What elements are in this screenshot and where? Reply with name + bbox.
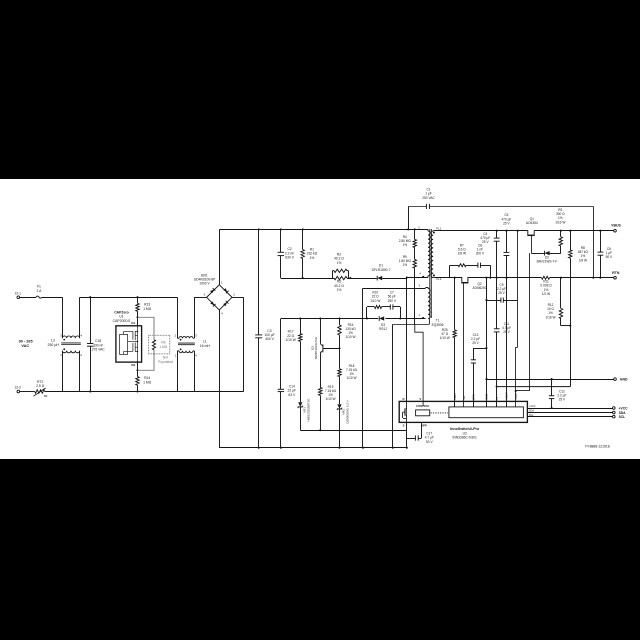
svg-text:HMSZ5258BT3G: HMSZ5258BT3G bbox=[306, 398, 310, 422]
bridge rectifier BR1 bbox=[194, 273, 236, 315]
wire SCL bbox=[527, 415, 625, 419]
svg-text:1%: 1% bbox=[337, 288, 342, 292]
transformer T1 bbox=[407, 226, 444, 327]
svg-text:250 VAC: 250 VAC bbox=[422, 196, 435, 200]
svg-text:200 V: 200 V bbox=[476, 252, 485, 256]
wire bias winding return bbox=[362, 288, 426, 448]
resistor R1 bbox=[301, 228, 318, 278]
terminal GND bbox=[614, 377, 628, 381]
svg-text:SDA: SDA bbox=[529, 410, 534, 413]
svg-text:1/16 W: 1/16 W bbox=[545, 315, 555, 319]
svg-text:250 V: 250 V bbox=[388, 299, 397, 303]
resistor R13 bbox=[136, 296, 152, 317]
svg-text:R14: R14 bbox=[144, 376, 150, 380]
resistor R10 snubber bbox=[367, 291, 391, 319]
resistor R14 bbox=[136, 370, 152, 392]
wire R8 bypass loop bbox=[138, 317, 155, 370]
svg-text:D: D bbox=[402, 397, 404, 401]
svg-text:1%: 1% bbox=[310, 256, 315, 260]
wire FL1 rail bbox=[435, 230, 615, 232]
capacitor C8 bbox=[476, 243, 492, 278]
svg-text:SCL: SCL bbox=[619, 415, 626, 419]
wire L from fuse to L2 bbox=[42, 297, 63, 299]
wire L2 pin3 drop bbox=[62, 297, 64, 338]
svg-text:R13: R13 bbox=[144, 302, 150, 306]
wire FB drop bbox=[497, 326, 571, 387]
svg-text:PI-8888-121918: PI-8888-121918 bbox=[585, 444, 609, 448]
svg-text:1 MΩ: 1 MΩ bbox=[143, 307, 152, 311]
capacitor C14 bbox=[278, 319, 296, 449]
svg-text:1000 V: 1000 V bbox=[199, 282, 210, 286]
svg-text:Populated: Populated bbox=[158, 360, 173, 364]
wire VOUT pin bbox=[506, 278, 508, 407]
wire L rail segment bbox=[80, 297, 178, 299]
wire bridge plus bbox=[219, 229, 221, 284]
svg-text:AON6250: AON6250 bbox=[473, 286, 487, 290]
label PI-8888-121918 bbox=[585, 444, 609, 448]
fuse F1 bbox=[36, 284, 42, 298]
wire to bridge ac1 bbox=[194, 297, 207, 299]
resistor R25 bbox=[440, 277, 457, 407]
capacitor C13 bbox=[471, 333, 487, 407]
svg-text:1%: 1% bbox=[402, 243, 407, 247]
resistor R4 bbox=[399, 228, 417, 247]
wire L2 pin4 rise bbox=[79, 297, 81, 338]
inductor L2 bbox=[48, 333, 83, 357]
svg-text:V: V bbox=[419, 397, 421, 401]
label U2 InnoSwitch3-Pro bbox=[450, 427, 480, 440]
labels U2 secondary pins bbox=[453, 392, 518, 400]
wire primary return bus bbox=[219, 447, 406, 449]
resistor R12 bbox=[545, 277, 570, 326]
wire clamp node bbox=[281, 277, 334, 279]
IC U2 internals bbox=[402, 397, 523, 428]
svg-text:+VCC: +VCC bbox=[619, 406, 629, 410]
svg-text:275 VAC: 275 VAC bbox=[92, 348, 106, 352]
zener VR1 bbox=[298, 398, 311, 430]
wire bridge minus bbox=[219, 310, 221, 448]
svg-text:1%: 1% bbox=[402, 263, 407, 267]
svg-text:250 µH: 250 µH bbox=[48, 343, 60, 347]
svg-text:1/10 W: 1/10 W bbox=[285, 338, 296, 342]
svg-text:S: S bbox=[403, 424, 405, 428]
svg-text:630 V: 630 V bbox=[285, 256, 294, 260]
svg-text:400 V: 400 V bbox=[265, 337, 274, 341]
wire GND rail bbox=[487, 379, 614, 381]
capacitor C17 bbox=[407, 422, 434, 443]
svg-text:L1: L1 bbox=[203, 340, 207, 344]
svg-text:InnoSwitch3-Pro: InnoSwitch3-Pro bbox=[450, 427, 480, 431]
connector J2-1 bbox=[15, 291, 22, 298]
svg-text:J2-2: J2-2 bbox=[15, 386, 22, 390]
resistor R16 bbox=[338, 319, 356, 350]
svg-text:D2: D2 bbox=[131, 363, 135, 367]
capacitor C7 bbox=[388, 291, 401, 319]
svg-text:VBUS: VBUS bbox=[611, 224, 621, 228]
terminal RTN bbox=[612, 271, 620, 279]
svg-text:1/10 W: 1/10 W bbox=[325, 397, 335, 401]
wire L2 pin2 drop bbox=[79, 351, 81, 392]
wire DC+ rail bbox=[219, 229, 428, 231]
wire aux to source bbox=[392, 324, 394, 449]
resistor R8b bbox=[569, 230, 589, 327]
capacitor C3 bbox=[255, 228, 274, 448]
svg-text:1/16 W: 1/16 W bbox=[555, 220, 565, 224]
wire L from J2-1 to fuse bbox=[20, 297, 37, 299]
transistor Q1 bbox=[526, 217, 538, 253]
capacitor C6 bbox=[598, 230, 614, 279]
svg-text:25 V: 25 V bbox=[498, 291, 505, 295]
capacitor C12 bbox=[549, 378, 567, 409]
IC U1 CAPZero internals bbox=[120, 326, 139, 362]
svg-text:D1: D1 bbox=[131, 321, 135, 325]
svg-text:BAV21WS-7-F: BAV21WS-7-F bbox=[537, 260, 558, 264]
svg-text:25 V: 25 V bbox=[472, 341, 479, 345]
capacitor C18 bbox=[87, 296, 105, 392]
svg-text:F1: F1 bbox=[37, 284, 41, 288]
diode D3 bbox=[379, 316, 387, 331]
wire bridge ac2 bbox=[232, 297, 244, 391]
wire drain bbox=[406, 276, 408, 401]
wire CAPZero D2 stub bbox=[131, 362, 138, 371]
resistor R5 bbox=[334, 276, 377, 292]
wire FL2 rail bbox=[435, 277, 615, 279]
svg-text:1 MΩ: 1 MΩ bbox=[159, 345, 167, 349]
svg-text:1%: 1% bbox=[337, 261, 342, 265]
svg-text:J2-1: J2-1 bbox=[15, 291, 22, 295]
svg-text:+VCC: +VCC bbox=[529, 405, 536, 408]
svg-text:1/10 W: 1/10 W bbox=[440, 336, 450, 340]
wire GND pin bbox=[485, 277, 487, 407]
resistor R18 bbox=[338, 348, 358, 404]
transistor Q2 bbox=[460, 278, 487, 407]
svg-text:DZ9083DXL 6.2 V: DZ9083DXL 6.2 V bbox=[345, 400, 349, 423]
thermistor RT2 bbox=[34, 380, 48, 396]
wire VR1 to source bbox=[300, 429, 406, 431]
svg-text:63 V: 63 V bbox=[288, 393, 296, 397]
svg-text:FL1: FL1 bbox=[436, 226, 441, 230]
svg-text:RT2: RT2 bbox=[37, 380, 43, 384]
resistor R17 bbox=[285, 319, 302, 403]
svg-text:25 V: 25 V bbox=[482, 240, 489, 244]
svg-text:SCL: SCL bbox=[529, 414, 534, 417]
wire VB chain bbox=[515, 230, 530, 407]
svg-text:1/10 W: 1/10 W bbox=[345, 335, 355, 339]
wire N from J2-2 to RT2 bbox=[15, 386, 35, 393]
svg-text:EQ3506: EQ3506 bbox=[432, 323, 444, 327]
capacitor C1 bbox=[407, 188, 594, 279]
resistor R8 not populated bbox=[149, 335, 173, 364]
capacitor C5 bbox=[501, 213, 511, 279]
label 90-265 VAC bbox=[19, 340, 33, 348]
svg-text:1/8 W: 1/8 W bbox=[458, 252, 466, 256]
label CAPZero U1 bbox=[113, 310, 131, 323]
resistor R7 snubber bbox=[450, 243, 478, 277]
svg-text:1/2 W: 1/2 W bbox=[542, 292, 550, 296]
wire S pin bbox=[406, 422, 408, 448]
svg-text:CAP200DG: CAP200DG bbox=[113, 319, 131, 323]
IC U1 CAPZero box bbox=[116, 326, 142, 362]
resistor R19 bbox=[319, 353, 337, 430]
svg-text:CONTROL: CONTROL bbox=[416, 404, 430, 408]
labels U2 right pins bbox=[529, 405, 536, 417]
svg-text:1/10 W: 1/10 W bbox=[346, 376, 356, 380]
svg-text:RTN: RTN bbox=[612, 271, 620, 275]
svg-text:1/10 W: 1/10 W bbox=[370, 299, 380, 303]
svg-text:L2: L2 bbox=[51, 338, 55, 342]
resistor R11 bbox=[540, 276, 552, 296]
svg-text:50 V: 50 V bbox=[606, 255, 613, 259]
capacitor C2 bbox=[278, 228, 295, 278]
svg-text:GND: GND bbox=[620, 377, 628, 381]
svg-text:MMBT3904LT1G: MMBT3904LT1G bbox=[314, 336, 318, 359]
wire V pin bbox=[393, 324, 430, 406]
svg-text:1 MΩ: 1 MΩ bbox=[143, 380, 152, 384]
wire +VCC bbox=[527, 406, 628, 410]
svg-text:RS1J: RS1J bbox=[379, 327, 387, 331]
wire N rail bbox=[45, 391, 244, 393]
svg-text:AO4354: AO4354 bbox=[526, 221, 538, 225]
resistor R9 bbox=[399, 248, 417, 325]
wire CAPZero D1 stub bbox=[131, 316, 138, 326]
svg-text:25 V: 25 V bbox=[559, 398, 566, 402]
svg-text:1/8 W: 1/8 W bbox=[579, 258, 587, 262]
svg-text:50 V: 50 V bbox=[426, 440, 433, 444]
svg-text:2 A: 2 A bbox=[36, 289, 42, 293]
svg-text:16 mH: 16 mH bbox=[200, 344, 211, 348]
svg-text:2.5 Ω: 2.5 Ω bbox=[36, 384, 45, 388]
resistor R3 bbox=[555, 208, 565, 253]
wire SDA bbox=[527, 411, 626, 415]
svg-text:25 V: 25 V bbox=[503, 221, 510, 225]
inductor L1 bbox=[175, 297, 211, 391]
transistor Q3 bbox=[310, 319, 339, 359]
svg-text:VAC: VAC bbox=[21, 344, 29, 348]
svg-text:INN3366C-H301: INN3366C-H301 bbox=[453, 436, 478, 440]
zener VR2 bbox=[337, 400, 349, 448]
resistor R2 bbox=[333, 252, 352, 279]
wire bias node bbox=[281, 317, 426, 320]
diode D2 bbox=[531, 251, 561, 264]
IC U2 box bbox=[399, 401, 527, 422]
capacitor C11 bbox=[494, 278, 511, 407]
svg-text:90 - 265: 90 - 265 bbox=[19, 340, 33, 344]
diode D1 bbox=[372, 264, 407, 281]
capacitor C9 bbox=[487, 283, 518, 303]
wire L2 pin1 drop bbox=[62, 351, 64, 392]
terminal VBUS bbox=[611, 224, 621, 232]
capacitor C4 bbox=[480, 230, 499, 279]
svg-text:DFLR1800-7: DFLR1800-7 bbox=[372, 268, 391, 272]
